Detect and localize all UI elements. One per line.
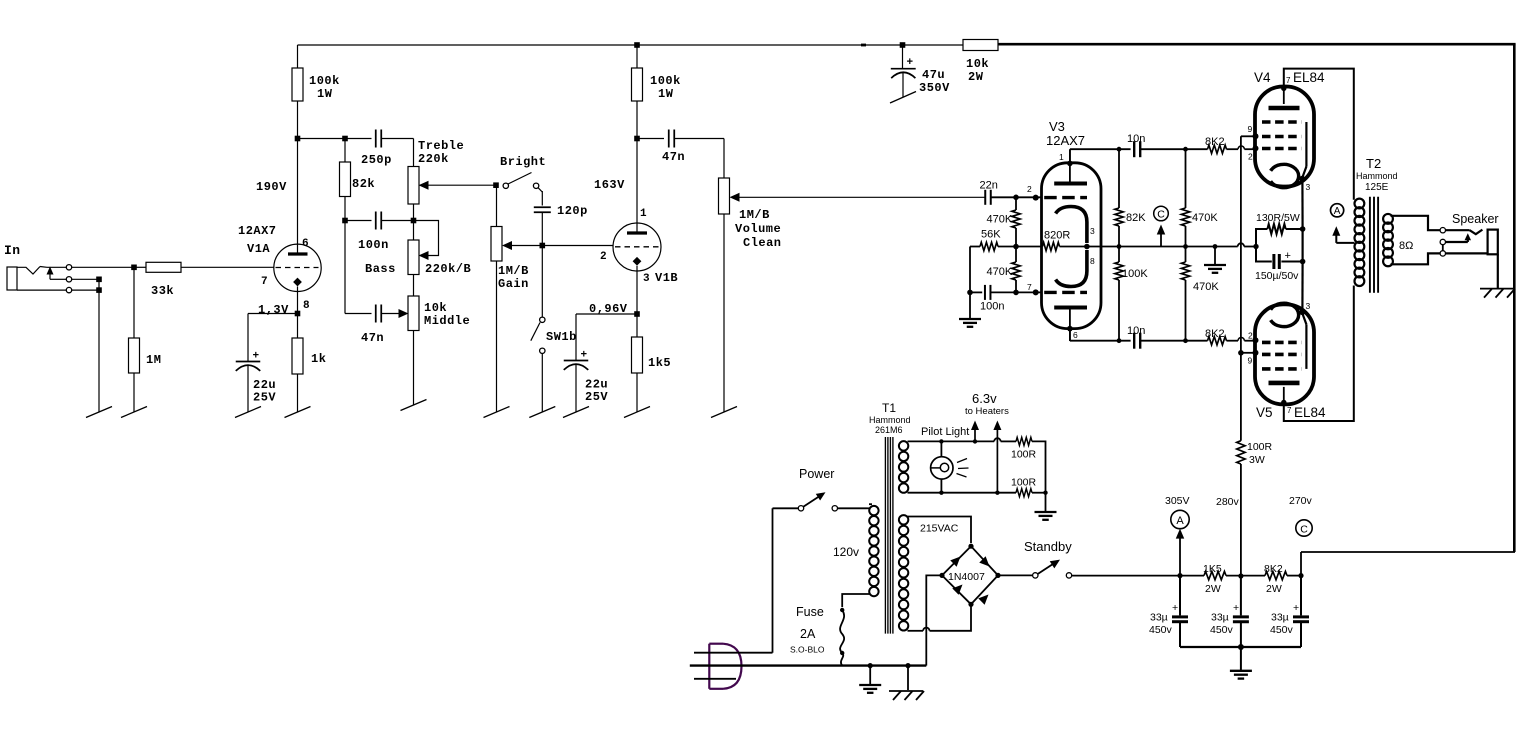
- svg-text:1: 1: [1059, 152, 1064, 162]
- svg-text:SW1b: SW1b: [546, 330, 577, 344]
- svg-text:47n: 47n: [361, 331, 384, 345]
- svg-text:1N4007: 1N4007: [948, 571, 985, 583]
- svg-text:33µ: 33µ: [1211, 612, 1229, 624]
- svg-text:7: 7: [1286, 76, 1291, 85]
- svg-text:V1A: V1A: [247, 242, 270, 256]
- svg-text:47u: 47u: [922, 68, 945, 82]
- svg-text:2: 2: [1027, 184, 1032, 194]
- svg-text:+: +: [1293, 602, 1299, 614]
- svg-text:3W: 3W: [1249, 454, 1265, 466]
- svg-text:100n: 100n: [358, 238, 389, 252]
- svg-text:1W: 1W: [658, 87, 674, 101]
- svg-text:100R: 100R: [1011, 477, 1037, 489]
- svg-text:3: 3: [643, 273, 650, 285]
- svg-text:2A: 2A: [800, 627, 816, 641]
- svg-text:820R: 820R: [1044, 230, 1070, 242]
- svg-text:3: 3: [1306, 182, 1311, 192]
- svg-text:100R: 100R: [1011, 449, 1037, 461]
- svg-text:2W: 2W: [1205, 583, 1221, 595]
- svg-text:Pilot Light: Pilot Light: [921, 426, 969, 438]
- svg-text:470K: 470K: [987, 214, 1013, 226]
- svg-text:In: In: [4, 243, 21, 258]
- svg-text:100K: 100K: [1122, 268, 1148, 280]
- svg-text:V4: V4: [1254, 70, 1271, 85]
- svg-text:125E: 125E: [1365, 182, 1389, 193]
- svg-text:305V: 305V: [1165, 495, 1190, 507]
- svg-text:3: 3: [1306, 301, 1311, 311]
- svg-text:+: +: [1172, 602, 1178, 614]
- svg-text:+: +: [253, 351, 260, 363]
- svg-text:470K: 470K: [987, 266, 1013, 278]
- svg-text:S.O-BLO: S.O-BLO: [790, 645, 825, 655]
- svg-text:Bright: Bright: [500, 155, 546, 169]
- svg-text:1M: 1M: [146, 353, 161, 367]
- svg-text:9: 9: [1248, 124, 1253, 134]
- svg-text:450v: 450v: [1210, 624, 1234, 636]
- svg-text:130R/5W: 130R/5W: [1256, 212, 1300, 224]
- svg-text:22n: 22n: [980, 180, 998, 192]
- svg-text:10n: 10n: [1127, 325, 1145, 337]
- svg-text:25V: 25V: [253, 391, 276, 405]
- svg-text:9: 9: [1248, 356, 1253, 366]
- svg-text:Middle: Middle: [424, 314, 470, 328]
- svg-text:120p: 120p: [557, 204, 588, 218]
- svg-text:470K: 470K: [1192, 212, 1218, 224]
- svg-text:1W: 1W: [317, 87, 333, 101]
- svg-text:Hammond: Hammond: [869, 415, 911, 425]
- svg-text:A: A: [1176, 515, 1184, 527]
- svg-text:A: A: [1334, 206, 1341, 217]
- svg-text:100k: 100k: [650, 74, 681, 88]
- svg-text:1,3V: 1,3V: [258, 303, 289, 317]
- svg-text:12AX7: 12AX7: [238, 224, 277, 238]
- svg-text:8: 8: [303, 300, 310, 312]
- svg-text:1: 1: [640, 208, 647, 220]
- svg-text:150µ/50v: 150µ/50v: [1255, 270, 1299, 282]
- svg-text:470K: 470K: [1193, 281, 1219, 293]
- svg-text:12AX7: 12AX7: [1046, 133, 1085, 148]
- svg-text:82k: 82k: [352, 177, 375, 191]
- svg-text:3: 3: [1090, 226, 1095, 236]
- svg-text:1K5: 1K5: [1203, 563, 1222, 575]
- svg-text:82K: 82K: [1126, 212, 1146, 224]
- svg-text:280v: 280v: [1216, 496, 1240, 508]
- svg-text:450v: 450v: [1149, 624, 1173, 636]
- svg-text:8K2: 8K2: [1205, 136, 1225, 148]
- svg-text:6: 6: [302, 238, 309, 250]
- svg-text:33k: 33k: [151, 284, 174, 298]
- svg-text:Gain: Gain: [498, 277, 529, 291]
- svg-text:Fuse: Fuse: [796, 605, 824, 619]
- svg-text:6: 6: [1073, 330, 1078, 340]
- svg-text:1k: 1k: [311, 352, 326, 366]
- svg-text:EL84: EL84: [1294, 405, 1326, 420]
- svg-text:T1: T1: [882, 401, 896, 415]
- svg-text:270v: 270v: [1289, 495, 1313, 507]
- svg-text:Speaker: Speaker: [1452, 212, 1499, 226]
- svg-text:+: +: [581, 350, 588, 362]
- svg-text:350V: 350V: [919, 81, 950, 95]
- svg-text:8K2: 8K2: [1205, 328, 1225, 340]
- svg-text:215VAC: 215VAC: [920, 523, 959, 535]
- svg-text:220k: 220k: [418, 152, 449, 166]
- svg-text:Standby: Standby: [1024, 539, 1072, 554]
- svg-text:T2: T2: [1366, 156, 1381, 171]
- svg-text:2: 2: [600, 251, 607, 263]
- svg-text:+: +: [1285, 250, 1291, 262]
- svg-text:100k: 100k: [309, 74, 340, 88]
- svg-text:450v: 450v: [1270, 624, 1294, 636]
- svg-text:EL84: EL84: [1293, 70, 1325, 85]
- svg-text:100n: 100n: [980, 301, 1004, 313]
- svg-text:Power: Power: [799, 467, 834, 481]
- svg-text:1M/B: 1M/B: [739, 208, 770, 222]
- svg-text:120v: 120v: [833, 545, 859, 559]
- svg-text:47n: 47n: [662, 150, 685, 164]
- svg-text:6.3v: 6.3v: [972, 391, 997, 406]
- svg-text:Volume: Volume: [735, 222, 781, 236]
- svg-text:Treble: Treble: [418, 139, 464, 153]
- svg-text:+: +: [907, 57, 914, 69]
- svg-text:10n: 10n: [1127, 133, 1145, 145]
- svg-text:250p: 250p: [361, 153, 392, 167]
- svg-text:7: 7: [261, 276, 268, 288]
- svg-text:7: 7: [1287, 406, 1292, 415]
- svg-text:190V: 190V: [256, 180, 287, 194]
- svg-text:2W: 2W: [1266, 583, 1282, 595]
- svg-text:8: 8: [1090, 256, 1095, 266]
- svg-text:8Ω: 8Ω: [1399, 240, 1413, 252]
- svg-text:261M6: 261M6: [875, 425, 903, 435]
- svg-text:33µ: 33µ: [1150, 612, 1168, 624]
- svg-text:+: +: [1233, 602, 1239, 614]
- svg-text:Clean: Clean: [743, 236, 782, 250]
- svg-text:25V: 25V: [585, 390, 608, 404]
- svg-text:2: 2: [1248, 331, 1253, 341]
- svg-text:C: C: [1300, 523, 1308, 535]
- svg-text:C: C: [1157, 209, 1165, 221]
- svg-text:220k/B: 220k/B: [425, 262, 471, 276]
- svg-text:10k: 10k: [424, 301, 447, 315]
- svg-text:1k5: 1k5: [648, 356, 671, 370]
- svg-text:100R: 100R: [1247, 441, 1273, 453]
- svg-text:10k: 10k: [966, 57, 989, 71]
- svg-text:Hammond: Hammond: [1356, 171, 1398, 181]
- svg-text:to Heaters: to Heaters: [965, 406, 1009, 417]
- svg-text:33µ: 33µ: [1271, 612, 1289, 624]
- svg-text:7: 7: [1027, 282, 1032, 292]
- svg-text:1M/B: 1M/B: [498, 264, 529, 278]
- svg-text:V5: V5: [1256, 405, 1273, 420]
- svg-text:Bass: Bass: [365, 262, 396, 276]
- svg-text:56K: 56K: [981, 229, 1001, 241]
- svg-text:163V: 163V: [594, 178, 625, 192]
- svg-text:V1B: V1B: [655, 271, 678, 285]
- svg-text:2W: 2W: [968, 70, 984, 84]
- svg-text:V3: V3: [1049, 119, 1065, 134]
- svg-text:8K2: 8K2: [1264, 563, 1283, 575]
- svg-text:2: 2: [1248, 152, 1253, 162]
